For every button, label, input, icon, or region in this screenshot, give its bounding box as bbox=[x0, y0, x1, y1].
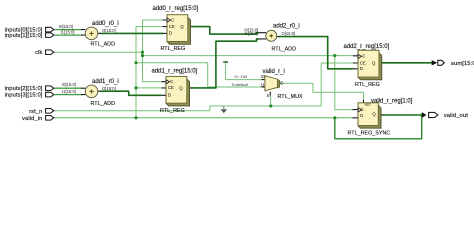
svg-text:I1[15:0]: I1[15:0] bbox=[61, 30, 75, 35]
port valid_in bbox=[46, 116, 54, 121]
svg-text:add0_r_reg[15:0]: add0_r_reg[15:0] bbox=[153, 6, 199, 12]
svg-text:add1_r_reg[15:0]: add1_r_reg[15:0] bbox=[152, 69, 198, 75]
wire branch y62.8 down to mux I1 bbox=[136, 63, 262, 87]
mux valid_r_i RTL_MUX bbox=[261, 74, 284, 98]
svg-text:I1[15:0]: I1[15:0] bbox=[62, 89, 76, 94]
port inputs[1][15:0] bbox=[46, 33, 54, 38]
svg-text:RTL_ADD: RTL_ADD bbox=[272, 46, 297, 52]
svg-text:rst_n: rst_n bbox=[29, 109, 42, 115]
svg-text:S= 1'b0: S= 1'b0 bbox=[234, 75, 247, 79]
wire valid_in riser x136 up to CE of add0_r_reg bbox=[136, 27, 163, 118]
wire inputs[1] bus to add0 I1 bbox=[54, 34, 81, 36]
pin stubs add0 bbox=[81, 30, 101, 35]
svg-text:CE: CE bbox=[360, 60, 366, 65]
svg-text:S: S bbox=[267, 93, 270, 98]
svg-text:valid_in: valid_in bbox=[22, 116, 42, 122]
wire add1 output bus to add1_r_reg D bbox=[101, 91, 162, 95]
svg-text:valid_r_reg[1:0]: valid_r_reg[1:0] bbox=[371, 98, 413, 104]
svg-text:RTL_ADD: RTL_ADD bbox=[91, 41, 116, 47]
svg-text:I0[15:0]: I0[15:0] bbox=[59, 24, 73, 29]
svg-text:I0[15:0]: I0[15:0] bbox=[62, 82, 76, 87]
svg-text:add2_r_reg[15:0]: add2_r_reg[15:0] bbox=[344, 44, 390, 50]
svg-text:Q: Q bbox=[372, 112, 376, 117]
svg-text:D: D bbox=[360, 113, 363, 118]
node valid_out branch bbox=[420, 113, 423, 116]
svg-text:valid_r_i: valid_r_i bbox=[263, 69, 285, 75]
register add1_r_reg[15:0] RTL_REG bbox=[166, 76, 190, 106]
pin stubs valid_r_reg bbox=[353, 100, 382, 118]
svg-text:add2_r0_i: add2_r0_i bbox=[273, 24, 300, 30]
svg-text:C: C bbox=[171, 17, 174, 22]
svg-text:Q: Q bbox=[372, 61, 376, 66]
svg-text:O[15:0]: O[15:0] bbox=[102, 86, 116, 91]
svg-text:inputs[1][15:0]: inputs[1][15:0] bbox=[5, 33, 43, 39]
svg-text:RTL_REG_SYNC: RTL_REG_SYNC bbox=[348, 130, 391, 136]
port rst_n bbox=[46, 109, 54, 114]
svg-text:add0_r0_i: add0_r0_i bbox=[92, 21, 119, 27]
svg-text:inputs[2][15:0]: inputs[2][15:0] bbox=[5, 86, 43, 92]
svg-text:Q: Q bbox=[180, 24, 184, 29]
wire inputs[0] bus to add0 I0 bbox=[54, 29, 81, 31]
port inputs[2][15:0] bbox=[46, 86, 54, 91]
wire inputs[3] bus to add1 I1 bbox=[54, 94, 81, 96]
svg-text:valid_out: valid_out bbox=[444, 113, 468, 119]
wire S-net riser x321.2 up to add2_r_reg CE bbox=[321, 63, 353, 106]
node valid_in to add1 CE bbox=[134, 86, 137, 89]
wire const0 stub with T-bar into mux I0 bbox=[226, 62, 262, 79]
svg-text:D: D bbox=[169, 31, 172, 36]
node clk lower branch bbox=[141, 54, 144, 57]
svg-text:O[15:0]: O[15:0] bbox=[282, 31, 296, 36]
wire mux valid_r_i output to RST pin on top of valid_r_reg bbox=[280, 83, 363, 100]
wire add2_r_reg Q bus to sum port bbox=[382, 62, 432, 64]
wire clk branch to add1_r_reg C bbox=[143, 81, 163, 83]
node valid_in riser foot bbox=[134, 116, 137, 119]
svg-text:add1_r0_i: add1_r0_i bbox=[92, 79, 119, 85]
register add0_r_reg[15:0] RTL_REG bbox=[167, 15, 191, 45]
node clk/riser bbox=[141, 51, 144, 54]
node feedback joins valid_in line bbox=[333, 116, 336, 119]
wire clk net: port to riser bbox=[54, 51, 143, 53]
ground-like arrow marker below S-line bbox=[221, 106, 228, 113]
node mux S junction bbox=[269, 104, 272, 107]
port valid_out output bbox=[422, 112, 438, 117]
port inputs[0][15:0] bbox=[46, 27, 54, 32]
svg-text:clk: clk bbox=[35, 50, 42, 56]
svg-text:I1[15:0]: I1[15:0] bbox=[244, 31, 258, 36]
svg-text:I1: I1 bbox=[261, 82, 265, 87]
svg-text:O[15:0]: O[15:0] bbox=[102, 28, 116, 33]
svg-text:C: C bbox=[361, 107, 364, 112]
pin stubs add0_r_reg bbox=[163, 20, 192, 33]
pin stubs add2_r_reg bbox=[353, 56, 383, 69]
wire add2 output bus to add2_r_reg D bbox=[279, 37, 353, 69]
wire clk riser x334.8 down to valid_r_reg C bbox=[335, 56, 353, 110]
svg-text:O: O bbox=[280, 81, 284, 86]
svg-text:RTL_ADD: RTL_ADD bbox=[91, 101, 116, 107]
svg-text:D: D bbox=[168, 93, 171, 98]
register valid_r_reg[1:0] RTL_REG_SYNC bbox=[358, 103, 381, 128]
svg-text:Q: Q bbox=[179, 86, 183, 91]
wire branch to add1_r_reg CE bbox=[136, 87, 162, 89]
node clk to valid_r_reg C bbox=[333, 54, 336, 57]
wire valid_r_reg Q to valid_out port bbox=[382, 114, 423, 116]
svg-text:CE: CE bbox=[168, 85, 174, 90]
svg-text:C: C bbox=[170, 79, 173, 84]
wire clk riser x142.5 up to C of add0_r_reg and down to C of add1_r_reg bbox=[143, 20, 163, 82]
pin stubs add1_r_reg bbox=[162, 82, 191, 96]
wire mux S riser bbox=[270, 95, 272, 106]
wire clk horizontal y55.6 to add2_r_reg C bbox=[143, 55, 354, 57]
wire rst_n net to S-line y106.2 bbox=[54, 106, 322, 111]
port inputs[3][15:0] bbox=[46, 92, 54, 97]
svg-text:S=default: S=default bbox=[232, 83, 249, 87]
op add1_r0_i RTL_ADD bbox=[85, 85, 98, 98]
wire add1_r_reg Q bus to add2 I1 bbox=[190, 39, 258, 88]
port clk bbox=[46, 50, 54, 55]
svg-text:RTL_REG: RTL_REG bbox=[161, 46, 186, 52]
svg-text:RTL_REG: RTL_REG bbox=[160, 108, 185, 114]
wire inputs[2] bus to add1 I0 bbox=[54, 87, 81, 89]
svg-text:RTL_MUX: RTL_MUX bbox=[278, 94, 303, 100]
op add2_r0_i RTL_ADD bbox=[266, 30, 277, 41]
pin stubs mux bbox=[262, 80, 281, 96]
svg-text:sum[15:0]: sum[15:0] bbox=[451, 61, 474, 67]
pin stubs add2 bbox=[259, 33, 280, 39]
wire valid_in net: long horizontal y117.8 into valid_r_reg D bbox=[54, 117, 353, 119]
wire add0 output bus to add0_r_reg D bbox=[101, 32, 164, 34]
port sum[15:0] output bbox=[432, 60, 445, 65]
pin stubs add1 bbox=[81, 88, 101, 94]
svg-text:inputs[3][15:0]: inputs[3][15:0] bbox=[5, 93, 43, 99]
svg-text:RTL_REG: RTL_REG bbox=[355, 82, 380, 88]
wire valid_r feedback loop bbox=[335, 115, 422, 139]
svg-text:D: D bbox=[360, 66, 363, 71]
svg-text:C: C bbox=[362, 54, 365, 59]
op add0_r0_i RTL_ADD bbox=[85, 27, 98, 40]
svg-text:CE: CE bbox=[169, 24, 175, 29]
wire add0_r_reg Q bus to add2 I0 bbox=[191, 27, 258, 34]
node valid_in to CE line bbox=[134, 61, 137, 64]
register add2_r_reg[15:0] RTL_REG bbox=[358, 50, 382, 80]
